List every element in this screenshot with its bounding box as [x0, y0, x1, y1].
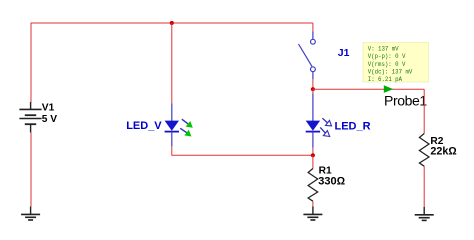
battery V1 [19, 102, 41, 133]
LED LED_R (off, hollow arrows) [306, 94, 332, 148]
resistor R1 [308, 169, 318, 202]
wire: top rail to switch J1 [312, 23, 314, 32]
wire: R2 bottom to ground [423, 166, 425, 207]
node: top rail junction to LED_V branch [170, 21, 174, 25]
resistor R2 [419, 134, 429, 167]
switch J1 [299, 32, 316, 80]
svg-text:5 V: 5 V [42, 114, 57, 125]
svg-text:J1: J1 [338, 47, 350, 59]
svg-text:Probe1: Probe1 [384, 93, 427, 109]
probe Probe1 readout box [363, 43, 429, 83]
wire: top rail [31, 22, 313, 24]
wire: LED_R bottom to lower junction [312, 148, 314, 156]
wire: LED_V bottom to lower rail corner [172, 146, 313, 155]
wire: switch J1 to probe junction [312, 79, 314, 89]
probe Probe1 arrow [384, 85, 393, 93]
ground: R1 [303, 207, 322, 221]
wire: probe rail corner down to R2 [423, 89, 425, 133]
svg-text:LED_V: LED_V [126, 120, 162, 132]
wire: probe junction down to LED_R [312, 89, 314, 93]
ground: R2 [415, 207, 434, 220]
wire: R1 bottom to ground [312, 201, 314, 206]
svg-text:V1: V1 [42, 103, 55, 114]
svg-text:22kΩ: 22kΩ [430, 145, 456, 157]
wire: junction to R1 top [312, 155, 314, 168]
wire: battery V1 bottom lead to ground [30, 133, 32, 207]
node: lower rail junction at R1 [311, 153, 315, 157]
wire: probe junction to R2 (horizontal) [313, 88, 424, 90]
svg-text:LED_R: LED_R [335, 120, 371, 132]
wire: battery V1 top lead to top rail [30, 23, 32, 103]
wire: LED_V branch down from top rail [171, 23, 173, 104]
node: probe junction [311, 87, 315, 91]
svg-text:I: 6.21 pA: I: 6.21 pA [368, 76, 403, 84]
svg-text:330Ω: 330Ω [318, 176, 345, 188]
ground: battery [21, 207, 40, 221]
LED LED_V (lit, green arrows) [165, 104, 193, 147]
